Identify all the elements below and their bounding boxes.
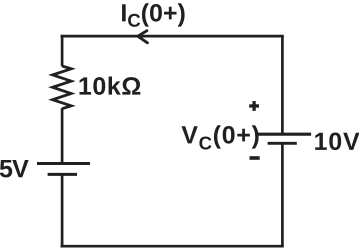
battery V1 5V long plate bbox=[37, 162, 90, 165]
current arrow head bbox=[138, 31, 148, 43]
capacitor C 10V short plate bbox=[268, 142, 297, 145]
battery V1 5V short plate bbox=[48, 173, 77, 176]
label 5V bbox=[0, 160, 29, 177]
wire right lower bbox=[281, 143, 284, 246]
wire right upper bbox=[281, 36, 284, 134]
label 10kΩ bbox=[79, 76, 140, 94]
resistor 10kΩ bbox=[53, 66, 72, 109]
plus sign bbox=[249, 101, 259, 111]
label VC(0+) bbox=[181, 125, 258, 149]
wire battery to bottom bbox=[61, 174, 64, 246]
wire left upper bbox=[61, 36, 64, 66]
wire resistor to battery bbox=[61, 108, 64, 163]
minus sign bbox=[250, 156, 260, 160]
label IC(0+) bbox=[122, 3, 185, 27]
wire top bbox=[61, 35, 284, 38]
label 10V bbox=[315, 132, 359, 150]
wire bottom bbox=[61, 245, 284, 248]
capacitor C 10V long plate bbox=[258, 133, 311, 136]
